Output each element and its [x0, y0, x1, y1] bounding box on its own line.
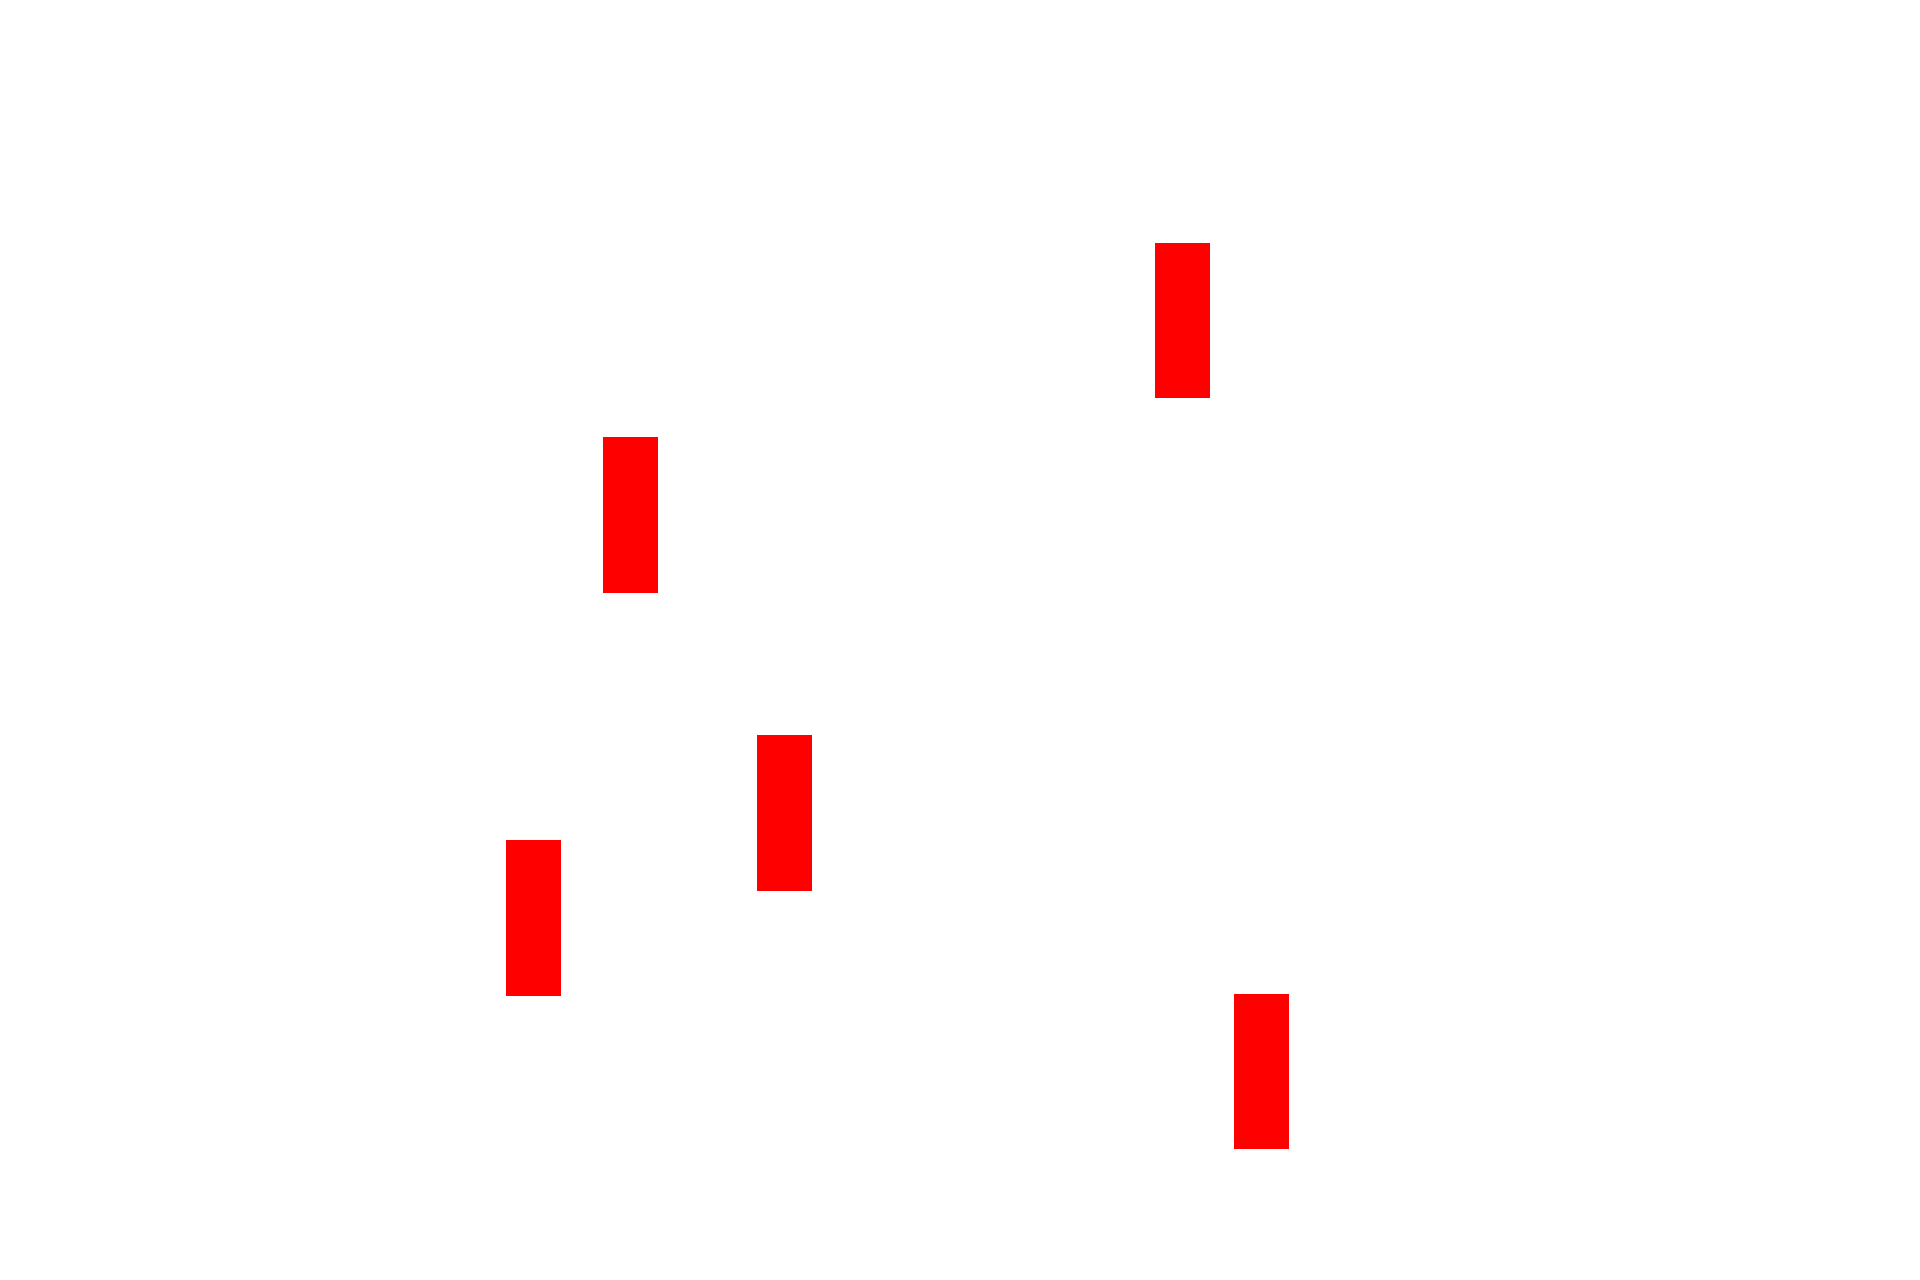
red bar 2 (upper left-center) — [603, 437, 658, 593]
red bar 4 (lower left) — [506, 840, 561, 996]
red bar 5 (bottom right-center) — [1234, 994, 1289, 1150]
red bar 3 (middle center) — [757, 735, 812, 891]
red bar 1 (top, upper right-center) — [1155, 243, 1210, 399]
